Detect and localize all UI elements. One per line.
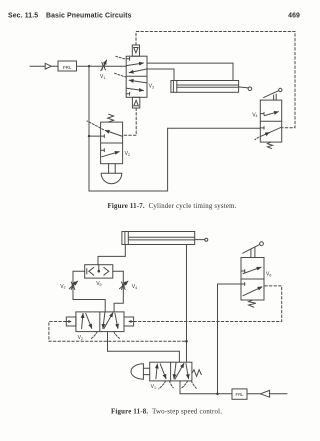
svg-text:V2: V2 [125,151,130,157]
pilot line dashed V3 bottom to V2 [123,108,137,135]
svg-text:Sec. 11.5: Sec. 11.5 [8,12,38,19]
wire supply inlet fig2 [270,393,287,395]
wire supply riser to V6 [218,284,242,394]
valve V2 body fig2 [76,312,124,332]
valve V3 body [126,56,147,97]
svg-text:Figure 11-7. Cylinder cycle t: Figure 11-7. Cylinder cycle timing syste… [108,203,237,210]
pilot box V3 bottom [132,97,139,108]
pilot line dashed V2 left [49,322,187,342]
V1 left box arrows [156,364,166,379]
wire cylinder rod end down [186,245,188,363]
wire supply to V2 [89,135,101,137]
V6 flow arrow bottom box [243,287,262,296]
caption figure 11-7 [108,203,237,210]
dashed tail V2 top-left [87,121,104,130]
valve V2 body fig1 [101,122,123,164]
wire supply inlet [30,65,45,67]
V6 flow arrow top box [243,267,261,273]
caption figure 11-8 [111,409,222,416]
flow control V1 [101,60,107,70]
svg-text:V1: V1 [100,74,105,80]
spring V6 bottom [249,300,256,307]
FRL unit fig1 [58,61,77,71]
svg-text:V6: V6 [266,272,271,278]
V3 flow arrow bottom box b [126,88,143,90]
node junction supply [88,65,90,67]
label V4 [252,112,257,118]
V2 fig2 right box arrows [103,312,118,328]
svg-text:V3: V3 [60,284,65,290]
wire riser to V4 [167,128,169,191]
node junction FRL fig2 [216,393,219,396]
pin tick V3 top-left [126,57,129,60]
FRL unit fig2 [232,389,247,399]
svg-text:V5: V5 [96,281,101,287]
pin tick V6 bottom box [241,283,245,286]
wire shuttle right [113,270,124,272]
V3 flow arrow top box b [129,69,147,73]
wire cylinder cap to shuttle [98,245,125,265]
pilot line dashed V3 top to V4 [136,32,295,128]
svg-text:V3: V3 [149,84,154,90]
flow control V3 fig2 [69,281,77,289]
V2 fig2 left box arrows [82,314,92,329]
pin tick V2 bottom box [101,149,105,152]
wire triangle to FRL [51,65,58,67]
dashed actuator tail V3 mid-left [115,73,127,77]
label V1 [100,74,105,80]
svg-text:469: 469 [288,12,300,19]
wire V3 to cylinder rod end [147,63,233,80]
svg-text:FRL: FRL [236,392,245,397]
dashed actuator tail V3 upper-left [116,56,126,59]
pin tick V4 top box [260,112,264,115]
label V3 [149,84,154,90]
valve V1 body fig2 [150,362,192,381]
wire bottom run [89,190,168,192]
V2 flow arrow bottom box [102,152,120,157]
exhaust curls V2 fig2 [91,332,119,339]
node junction V2 supply [88,135,90,137]
cylinder fig2 [122,232,205,245]
pin tick V4 bottom box [260,127,264,130]
roller lever V6 [243,242,264,258]
exhaust curls V1 fig2 [159,381,197,389]
svg-text:Figure 11-8. Two-step speed c: Figure 11-8. Two-step speed control. [111,409,222,416]
rod end knob fig1 [248,87,252,91]
cylinder fig1 [171,81,248,93]
air supply triangle [45,63,51,69]
wire V3 to cylinder cap end [147,69,174,81]
label V2 [125,151,130,157]
pilot line dashed V2 right to V6 [134,286,282,322]
wire FRL to valve V3 [77,65,127,67]
spring V1 right [192,370,201,377]
shuttle valve V5 [85,265,113,278]
V3 flow arrow top box a [126,63,143,66]
label V5 [96,281,101,287]
label V4 fig2 [132,284,137,290]
pilot box V3 top [132,45,139,56]
V4 flow arrow top box [264,112,278,116]
svg-text:FRL: FRL [63,65,72,70]
svg-text:V2: V2 [78,335,83,341]
V1 right box arrows [174,363,189,379]
pin tick V2 top box [101,135,105,138]
spring V2 top [108,114,114,122]
pilot box V2 left [66,317,76,326]
V3 flow arrow bottom box a [129,80,147,83]
palm button V1 [131,364,150,379]
roller lever V4 [264,88,282,100]
wire supply to V4 [168,127,261,129]
wire supply branch down [88,66,90,191]
svg-text:V4: V4 [132,284,137,290]
wire junction to FRL fig2 [218,393,233,395]
flow control V4 fig2 [120,281,128,289]
wire shuttle left [73,270,85,272]
svg-text:Basic Pneumatic Circuits: Basic Pneumatic Circuits [46,12,132,19]
svg-text:V1: V1 [151,384,156,390]
pin tick V6 top box [241,270,245,273]
label V6 [266,272,271,278]
wire FRL to supply triangle fig2 [247,393,260,395]
wire V2 supply down to V1 [108,332,180,363]
V4 flow arrow bottom box exhaust [255,127,282,140]
node junction pilot tap [185,340,188,343]
spring V4 bottom [267,142,272,149]
pilot box V2 right [124,317,134,326]
rod end knob fig2 [205,238,208,241]
label V3 fig2 [60,284,65,290]
svg-text:V4: V4 [252,112,257,118]
label V2 fig2 [78,335,83,341]
pin tick V3 bottom-left [126,92,129,95]
bell dome fig1 [101,173,122,184]
valve V4 body [260,100,281,142]
header text [8,12,300,19]
stem V2 bottom [109,164,116,174]
wire left riser [73,271,105,312]
label V1 fig2 [151,384,156,390]
wire V1 supply down [180,381,218,394]
air supply triangle fig2 [260,390,269,397]
wire right riser [114,271,123,312]
valve V6 body [241,258,264,301]
V2 flow arrow top box [105,130,122,136]
